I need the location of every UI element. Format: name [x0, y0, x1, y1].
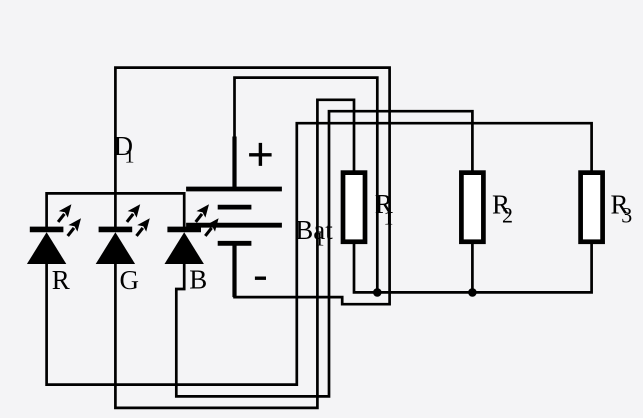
wire: blue LED anode down with jog, right along bottom, up riser, to R2 top — [176, 111, 472, 396]
wire: resistor bottom rail R1 to R3 — [354, 243, 592, 293]
LED D1 green element — [96, 204, 150, 264]
battery plus lead — [232, 137, 236, 190]
junction dot on resistor bottom rail at R2 bottom — [468, 288, 477, 297]
wire: cathode rail joining R,G,B LED tops — [47, 193, 185, 229]
svg-text:2: 2 — [502, 203, 513, 228]
wire: green LED anode down, right along bottom, up riser to hook, to R1 top — [115, 100, 354, 408]
battery minus lead — [232, 243, 236, 297]
wire: R2 bottom lead — [471, 243, 474, 293]
battery minus sign — [255, 277, 266, 280]
resistor R1 — [343, 173, 365, 242]
resistor R3 — [581, 173, 603, 242]
svg-text:G: G — [120, 265, 140, 295]
svg-text:B: B — [189, 265, 207, 295]
battery plus sign — [249, 143, 272, 166]
battery plate 3 (long) — [186, 223, 282, 228]
svg-text:1: 1 — [125, 146, 135, 168]
resistor R2 — [461, 173, 483, 242]
svg-text:3: 3 — [621, 203, 632, 228]
svg-text:1: 1 — [315, 229, 325, 251]
junction dot on resistor bottom rail at battery plus drop — [373, 288, 382, 297]
svg-text:R: R — [52, 265, 70, 295]
LED D1 red element — [27, 204, 81, 264]
wire: battery plus up, right, and down to resistor bottom rail junction — [235, 78, 378, 293]
wire: red LED anode down, right along bottom, up riser, to R3 top — [47, 123, 592, 384]
LED D1 blue element — [165, 204, 219, 264]
wire: battery minus to top loop and down to D1 green cathode (common cathode net) — [115, 68, 389, 305]
battery Bat1 — [186, 137, 282, 298]
svg-text:1: 1 — [384, 208, 394, 230]
battery plate 4 (short, negative) — [218, 241, 252, 246]
battery plate 2 (short) — [218, 205, 252, 210]
battery plate 1 (long, positive) — [186, 187, 282, 192]
